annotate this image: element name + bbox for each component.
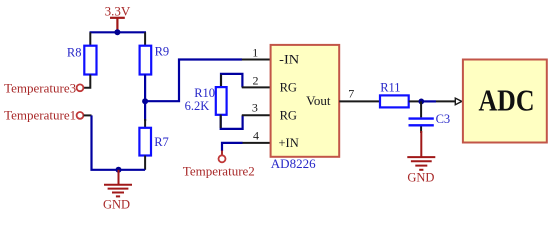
arrow into ADC xyxy=(455,98,462,105)
wire into ADC xyxy=(436,100,456,102)
pin 2 wire xyxy=(242,86,271,88)
svg-text:GND: GND xyxy=(103,198,130,212)
wire R11 to junction xyxy=(409,100,422,102)
resistor R9 xyxy=(140,46,152,75)
wire R10 bottom loop xyxy=(221,115,243,129)
wire R10 top loop xyxy=(221,74,242,88)
node junction output xyxy=(418,99,424,105)
svg-text:2: 2 xyxy=(253,73,259,87)
capacitor C3 plate top xyxy=(409,117,434,119)
pin stub R9 top xyxy=(144,32,146,46)
ground symbol left xyxy=(104,170,132,197)
power bar 3.3V xyxy=(110,17,125,19)
pin 4 wire xyxy=(242,142,271,144)
svg-text:AD8226: AD8226 xyxy=(271,156,316,171)
svg-text:C3: C3 xyxy=(436,112,451,126)
pin 3 wire xyxy=(242,114,271,116)
terminal circle Temperature2 xyxy=(219,155,226,162)
wire pin 4 to Temperature2 xyxy=(222,143,243,151)
pin stub R10 bottom xyxy=(220,115,222,129)
wire junction to pin 1 xyxy=(145,60,242,102)
resistor R10 xyxy=(216,87,227,115)
svg-text:Temperature2: Temperature2 xyxy=(183,164,255,179)
pin stub R10 top xyxy=(220,75,222,88)
terminal circle Temperature1 xyxy=(77,112,84,119)
resistor R11 xyxy=(380,95,409,107)
svg-text:-IN: -IN xyxy=(279,53,299,67)
svg-text:ADC: ADC xyxy=(479,83,535,118)
wire Temperature1 down to ground rail xyxy=(92,115,119,169)
pin 1 wire xyxy=(242,59,271,61)
wire ground rail xyxy=(119,169,146,171)
svg-text:3: 3 xyxy=(252,101,258,115)
svg-text:6.2K: 6.2K xyxy=(185,99,210,113)
pin stub C3 top xyxy=(420,101,422,117)
svg-text:3.3V: 3.3V xyxy=(105,4,131,19)
pin stub C3 bottom xyxy=(420,127,422,134)
svg-text:+IN: +IN xyxy=(279,136,299,150)
power stem 3.3V xyxy=(116,18,118,33)
resistor R7 xyxy=(139,128,151,156)
svg-text:GND: GND xyxy=(407,170,434,184)
pin stub R8 top xyxy=(89,32,91,46)
wire R7 top xyxy=(144,101,146,121)
node junction divider mid xyxy=(142,98,148,104)
capacitor C3 plate bottom xyxy=(409,124,434,126)
svg-text:4: 4 xyxy=(253,129,259,143)
resistor R8 xyxy=(84,46,96,75)
pin stub Temperature1 xyxy=(84,114,92,116)
node junction top xyxy=(114,29,120,35)
svg-text:R7: R7 xyxy=(154,135,169,149)
svg-text:Temperature1: Temperature1 xyxy=(4,107,76,122)
svg-text:1: 1 xyxy=(252,45,258,59)
pin 7 wire xyxy=(339,100,380,102)
ground symbol right xyxy=(407,131,435,170)
wire R9 bottom to junction xyxy=(144,75,146,102)
svg-text:Vout: Vout xyxy=(306,93,331,108)
svg-text:R9: R9 xyxy=(155,44,170,58)
block ADC body xyxy=(463,60,547,143)
pin stub R7 bottom xyxy=(144,156,146,170)
wire junction blue segment xyxy=(421,100,436,102)
node junction ground xyxy=(116,167,122,173)
terminal circle Temperature3 xyxy=(77,84,84,91)
svg-text:R10: R10 xyxy=(194,86,215,100)
pin stub R7 top xyxy=(144,119,146,128)
op-amp U1 AD8226 body xyxy=(271,45,340,157)
wire top rail xyxy=(90,31,147,33)
svg-text:7: 7 xyxy=(348,87,354,101)
svg-text:Temperature3: Temperature3 xyxy=(4,80,76,95)
pin stub Temperature2 xyxy=(221,150,223,155)
svg-text:R11: R11 xyxy=(380,81,400,95)
svg-text:R8: R8 xyxy=(67,46,82,60)
svg-text:RG: RG xyxy=(280,81,297,95)
svg-text:RG: RG xyxy=(280,108,297,122)
pin stub R8 bottom xyxy=(84,75,91,88)
